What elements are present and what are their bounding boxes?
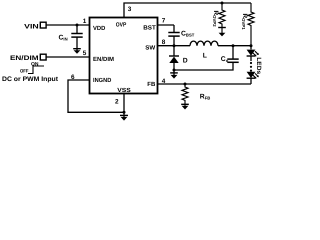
capacitor CIN xyxy=(76,25,78,33)
svg-text:EN/DIM: EN/DIM xyxy=(93,56,114,63)
svg-text:CIN: CIN xyxy=(59,35,68,42)
svg-text:DC or PWM Input: DC or PWM Input xyxy=(2,76,59,83)
svg-text:4: 4 xyxy=(162,78,166,85)
svg-text:FB: FB xyxy=(147,81,156,88)
ground (VSS) xyxy=(120,114,128,116)
svg-text:VIN: VIN xyxy=(24,24,39,31)
LED D1 xyxy=(250,46,252,50)
ground (ROVP2) xyxy=(218,27,226,29)
svg-text:SW: SW xyxy=(145,45,155,52)
svg-text:BST: BST xyxy=(143,25,156,32)
svg-text:ROVP2: ROVP2 xyxy=(212,11,219,28)
svg-text:LEDs: LEDs xyxy=(255,57,262,75)
VIN input terminal xyxy=(40,22,46,28)
svg-text:RFB: RFB xyxy=(200,94,211,101)
node VOUT xyxy=(250,44,253,47)
node VSS/INGND junction xyxy=(123,111,126,114)
ground (CIN) xyxy=(73,48,81,50)
svg-text:D: D xyxy=(183,58,188,65)
svg-text:Co: Co xyxy=(221,56,229,63)
wire pin 4 FB line xyxy=(158,83,252,85)
svg-text:1: 1 xyxy=(83,18,87,25)
svg-text:3: 3 xyxy=(128,6,132,13)
ground (diode/Co rail) xyxy=(173,70,175,75)
ground (RFB) xyxy=(181,103,189,105)
node VIN/CIN junction xyxy=(76,24,79,27)
svg-text:CBST: CBST xyxy=(181,31,195,38)
wire L to output node xyxy=(218,45,251,47)
svg-text:VSS: VSS xyxy=(117,87,131,94)
svg-text:EN/DIM: EN/DIM xyxy=(10,55,39,62)
wire pin 2 VSS stub xyxy=(123,94,125,118)
waveform (DC or PWM input) xyxy=(28,66,44,74)
wire EN/DIM to pin 5 xyxy=(46,56,90,58)
node OVP divider tap xyxy=(221,2,224,5)
resistor ROVP2 xyxy=(219,3,225,33)
node SW junction xyxy=(173,44,176,47)
svg-text:2: 2 xyxy=(115,98,119,105)
resistor ROVP1 xyxy=(248,3,254,46)
wire pin 8 SW xyxy=(158,45,191,47)
node FB / RFB tap xyxy=(184,83,187,86)
diode D xyxy=(173,46,175,56)
svg-text:5: 5 xyxy=(83,50,87,57)
EN/DIM input terminal xyxy=(40,54,46,60)
wire pin 6 INGND to VSS ground xyxy=(68,80,124,112)
inductor L xyxy=(190,41,218,46)
node diode anode / gnd rail xyxy=(173,69,176,72)
svg-text:ON: ON xyxy=(31,61,39,67)
node Co tap xyxy=(232,44,235,47)
svg-text:OFF: OFF xyxy=(20,69,29,75)
wire gnd rail to Co bottom xyxy=(174,62,233,70)
IC U1 body xyxy=(90,18,158,94)
svg-text:OVP: OVP xyxy=(116,21,127,28)
wire VIN to pin 1 xyxy=(46,24,90,26)
svg-text:7: 7 xyxy=(162,17,166,24)
capacitor Co xyxy=(227,61,238,63)
LED string ellipsis dots xyxy=(250,62,252,64)
resistor RFB xyxy=(182,84,188,106)
svg-text:INGND: INGND xyxy=(93,77,112,84)
svg-text:6: 6 xyxy=(71,74,75,81)
svg-text:VDD: VDD xyxy=(93,25,106,32)
LED D2 xyxy=(247,72,256,78)
svg-text:L: L xyxy=(203,53,207,60)
capacitor CBST xyxy=(173,25,175,32)
svg-text:8: 8 xyxy=(162,39,166,46)
wire pin 3 OVP to top rail xyxy=(124,3,251,18)
wire pin 7 BST xyxy=(158,24,175,26)
svg-text:ROVP1: ROVP1 xyxy=(241,14,248,31)
